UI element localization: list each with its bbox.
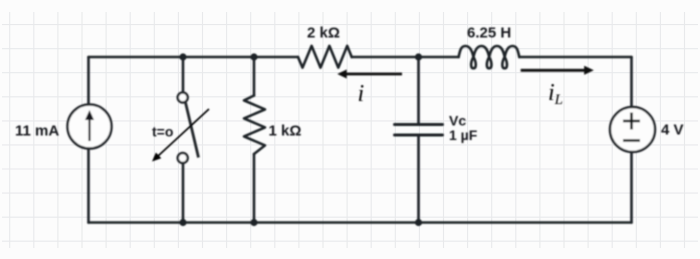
- junction node bottom switch: [179, 219, 186, 226]
- switch SW1 bottom terminal: [178, 153, 188, 163]
- svg-text:4 V: 4 V: [661, 122, 684, 139]
- voltage source plus sign: [623, 113, 640, 141]
- wire top-left segment: [89, 56, 299, 59]
- wire capacitor top: [417, 57, 420, 124]
- svg-text:11 mA: 11 mA: [15, 123, 59, 140]
- svg-text:2 kΩ: 2 kΩ: [307, 25, 340, 42]
- inductor L 6.25H: [459, 46, 520, 68]
- wire capacitor bottom: [417, 136, 420, 223]
- wire top-right segment: [519, 56, 631, 59]
- current arrow i: [337, 70, 402, 79]
- junction node top capacitor: [415, 53, 422, 60]
- switch SW1 blade: [186, 103, 199, 158]
- junction node top 1k: [250, 53, 257, 60]
- current source arrow: [85, 110, 94, 141]
- junction node bottom 1k: [250, 219, 257, 226]
- current arrow iL: [521, 66, 594, 75]
- svg-text:6.25 H: 6.25 H: [467, 25, 511, 42]
- wire top-middle segment: [352, 56, 459, 59]
- wire switch bottom: [182, 164, 185, 223]
- capacitor C plates: [395, 123, 443, 126]
- switch SW1 top terminal: [178, 93, 188, 103]
- voltage source minus sign: [623, 139, 640, 142]
- svg-text:1 kΩ: 1 kΩ: [269, 123, 302, 140]
- wire left upper: [87, 57, 90, 105]
- wire right lower: [630, 152, 633, 223]
- junction node top switch: [179, 53, 186, 60]
- wire switch top: [182, 57, 185, 92]
- junction node bottom capacitor: [415, 219, 422, 226]
- svg-text:t=o: t=o: [152, 124, 173, 140]
- svg-text:1 µF: 1 µF: [449, 127, 478, 143]
- current source I1 circle: [68, 105, 112, 149]
- switch actuation arrow t=0: [152, 109, 209, 162]
- wire left lower: [87, 149, 90, 223]
- wire resistor 1k bottom: [253, 154, 256, 223]
- resistor R 2kOhm: [298, 46, 352, 68]
- wire bottom: [89, 221, 632, 224]
- svg-text:i: i: [358, 81, 365, 107]
- resistor R 1kOhm: [244, 96, 265, 155]
- voltage source V1 circle: [610, 107, 655, 152]
- wire resistor 1k top: [253, 57, 256, 96]
- wire right upper: [630, 57, 633, 107]
